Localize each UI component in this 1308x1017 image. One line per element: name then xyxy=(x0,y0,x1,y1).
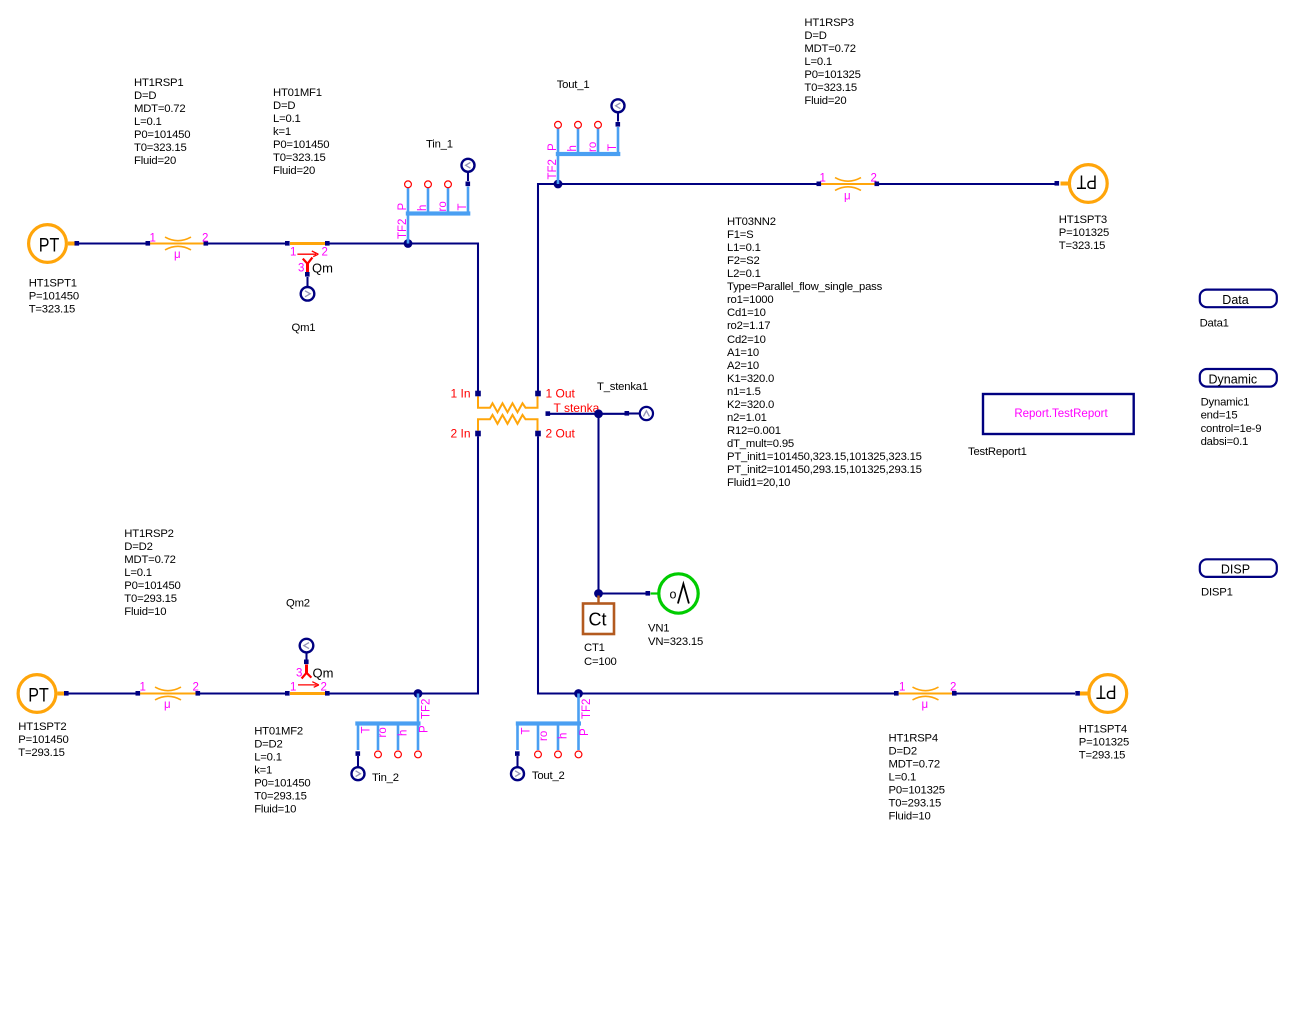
svg-text:L=0.1: L=0.1 xyxy=(134,116,162,128)
svg-text:ro: ro xyxy=(538,731,550,741)
source PT HT1SPT2 xyxy=(18,675,69,713)
svg-text:P: P xyxy=(579,728,591,736)
svg-text:1: 1 xyxy=(899,682,905,694)
temperature sensor Tin_2 TF2 (flipped) xyxy=(352,694,433,781)
svg-text:P0=101450: P0=101450 xyxy=(273,139,329,151)
svg-text:L1=0.1: L1=0.1 xyxy=(727,242,761,254)
svg-text:P: P xyxy=(547,143,559,151)
wall temperature port T stenka xyxy=(546,401,628,416)
wire xyxy=(206,242,288,244)
label HT1SPT1 params xyxy=(29,278,79,316)
svg-text:Fluid1=20,10: Fluid1=20,10 xyxy=(727,477,790,489)
svg-text:HT1SPT4: HT1SPT4 xyxy=(1079,723,1127,735)
svg-text:Fluid=10: Fluid=10 xyxy=(124,606,166,618)
svg-text:dabsi=0.1: dabsi=0.1 xyxy=(1201,436,1249,448)
svg-text:k=1: k=1 xyxy=(254,765,272,777)
svg-text:HT1RSP1: HT1RSP1 xyxy=(134,77,183,89)
svg-text:VN1: VN1 xyxy=(648,623,669,635)
svg-text:P0=101450: P0=101450 xyxy=(124,580,180,592)
svg-text:P: P xyxy=(419,725,431,733)
svg-text:MDT=0.72: MDT=0.72 xyxy=(124,554,175,566)
svg-text:Type=Parallel_flow_single_pass: Type=Parallel_flow_single_pass xyxy=(727,281,883,293)
svg-text:VN=323.15: VN=323.15 xyxy=(648,636,703,648)
label HT1SPT3 params xyxy=(1059,214,1109,252)
wire with corner down to heat exchanger port 1 In xyxy=(328,244,479,392)
svg-text:PT: PT xyxy=(1076,171,1097,193)
flow meter Qm HT01MF1 xyxy=(285,241,333,301)
wire with corner up to heat exchanger port 2 In xyxy=(328,436,479,693)
svg-text:TF2: TF2 xyxy=(547,159,559,179)
svg-text:PT_init1=101450,323.15,101325,: PT_init1=101450,323.15,101325,323.15 xyxy=(727,451,922,463)
label HT01MF2 params xyxy=(254,726,310,816)
svg-text:TestReport1: TestReport1 xyxy=(968,446,1027,458)
wire down from T_stenka junction xyxy=(597,414,599,594)
svg-text:T0=323.15: T0=323.15 xyxy=(134,142,187,154)
report block Report.TestReport xyxy=(983,394,1134,434)
svg-text:ro: ro xyxy=(587,142,599,152)
gauge T_stenka1 xyxy=(625,407,654,420)
svg-text:μ: μ xyxy=(844,191,851,203)
button DISP1 xyxy=(1200,559,1277,577)
svg-text:MDT=0.72: MDT=0.72 xyxy=(889,758,940,770)
scope VN1 xyxy=(646,574,699,613)
svg-text:Cd2=10: Cd2=10 xyxy=(727,334,766,346)
button Data1 xyxy=(1200,290,1277,308)
svg-text:L=0.1: L=0.1 xyxy=(254,752,282,764)
svg-text:T: T xyxy=(457,203,469,210)
svg-text:T0=323.15: T0=323.15 xyxy=(804,82,857,94)
svg-text:K2=320.0: K2=320.0 xyxy=(727,399,774,411)
svg-text:2: 2 xyxy=(322,247,328,259)
local resistance mu HT1RSP2 xyxy=(136,682,201,712)
svg-text:1: 1 xyxy=(290,682,296,694)
svg-text:T0=293.15: T0=293.15 xyxy=(254,791,307,803)
svg-text:TF2: TF2 xyxy=(397,219,409,239)
svg-text:T0=293.15: T0=293.15 xyxy=(124,593,177,605)
svg-text:o: o xyxy=(670,588,677,602)
svg-text:CT1: CT1 xyxy=(584,642,605,654)
svg-text:D=D2: D=D2 xyxy=(889,745,917,757)
svg-text:ro2=1.17: ro2=1.17 xyxy=(727,320,770,332)
wire xyxy=(77,242,148,244)
svg-text:Qm1: Qm1 xyxy=(292,322,316,334)
svg-text:Data1: Data1 xyxy=(1200,317,1229,329)
svg-text:D=D2: D=D2 xyxy=(124,541,152,553)
svg-text:μ: μ xyxy=(922,699,929,711)
svg-text:T=323.15: T=323.15 xyxy=(29,304,75,316)
node junction VN1/CT1 xyxy=(594,589,603,598)
flow meter Qm HT01MF2 (flipped) xyxy=(285,639,333,696)
svg-text:Report.TestReport: Report.TestReport xyxy=(1014,408,1108,420)
svg-text:2: 2 xyxy=(871,173,877,185)
svg-text:HT01MF1: HT01MF1 xyxy=(273,87,322,99)
svg-text:Fluid=10: Fluid=10 xyxy=(254,804,296,816)
svg-text:k=1: k=1 xyxy=(273,126,291,138)
svg-text:2 Out: 2 Out xyxy=(546,427,576,441)
temperature sensor Tout_1 TF2 xyxy=(547,99,624,184)
svg-text:control=1e-9: control=1e-9 xyxy=(1201,423,1262,435)
svg-text:dT_mult=0.95: dT_mult=0.95 xyxy=(727,438,794,450)
svg-text:Tout_2: Tout_2 xyxy=(532,770,565,782)
svg-text:1 In: 1 In xyxy=(450,387,470,401)
label HT1RSP1 params xyxy=(134,77,190,167)
svg-text:h: h xyxy=(558,733,570,739)
svg-text:1: 1 xyxy=(150,233,156,245)
svg-text:HT01MF2: HT01MF2 xyxy=(254,726,303,738)
svg-text:HT1RSP2: HT1RSP2 xyxy=(124,528,173,540)
svg-text:ro1=1000: ro1=1000 xyxy=(727,294,773,306)
temperature sensor Tout_2 TF2 (flipped) xyxy=(511,694,593,781)
label HT1SPT4 params xyxy=(1079,723,1129,761)
svg-text:T: T xyxy=(521,727,533,734)
svg-text:1: 1 xyxy=(140,682,146,694)
node junction Tin_1 tap xyxy=(404,239,413,248)
svg-text:Tin_2: Tin_2 xyxy=(372,772,399,784)
label VN1 params xyxy=(648,623,703,649)
svg-text:L=0.1: L=0.1 xyxy=(804,56,832,68)
node junction Tout_1 tap xyxy=(554,180,563,189)
wire xyxy=(198,692,288,694)
svg-text:TF2: TF2 xyxy=(581,699,593,719)
source PT HT1SPT3 (rotated 180) xyxy=(1055,165,1108,203)
svg-text:h: h xyxy=(567,145,579,151)
svg-text:T: T xyxy=(361,726,373,733)
svg-text:Fluid=20: Fluid=20 xyxy=(134,155,176,167)
local resistance mu HT1RSP3 xyxy=(817,173,880,203)
svg-text:F1=S: F1=S xyxy=(727,229,754,241)
local resistance mu HT1RSP1 xyxy=(146,233,209,262)
svg-text:D=D: D=D xyxy=(134,90,156,102)
wire xyxy=(67,692,139,694)
svg-text:D=D: D=D xyxy=(273,100,295,112)
svg-text:MDT=0.72: MDT=0.72 xyxy=(804,43,855,55)
svg-text:ro: ro xyxy=(377,727,389,737)
svg-text:Fluid=20: Fluid=20 xyxy=(273,165,315,177)
svg-text:Data: Data xyxy=(1222,293,1248,307)
svg-text:P0=101450: P0=101450 xyxy=(134,129,190,141)
svg-text:n1=1.5: n1=1.5 xyxy=(727,386,761,398)
svg-text:Tin_1: Tin_1 xyxy=(426,139,453,151)
svg-text:P: P xyxy=(397,203,409,211)
svg-text:HT1SPT3: HT1SPT3 xyxy=(1059,214,1107,226)
svg-text:3: 3 xyxy=(298,263,304,275)
label HT01MF1 params xyxy=(273,87,329,177)
svg-text:1: 1 xyxy=(290,247,296,259)
button Dynamic1 xyxy=(1200,369,1277,387)
svg-text:DISP: DISP xyxy=(1221,562,1250,576)
svg-text:Ct: Ct xyxy=(589,610,607,630)
label HT1RSP2 params xyxy=(124,528,180,618)
svg-text:ro: ro xyxy=(437,201,449,211)
svg-text:3: 3 xyxy=(296,668,302,680)
svg-text:F2=S2: F2=S2 xyxy=(727,255,760,267)
svg-text:L=0.1: L=0.1 xyxy=(889,771,917,783)
wire to VN1 xyxy=(599,592,649,594)
svg-text:T0=293.15: T0=293.15 xyxy=(889,797,942,809)
svg-text:Dynamic: Dynamic xyxy=(1208,372,1257,386)
svg-text:2: 2 xyxy=(950,682,956,694)
svg-text:P0=101325: P0=101325 xyxy=(804,69,860,81)
svg-text:HT1SPT2: HT1SPT2 xyxy=(18,721,66,733)
svg-text:T=293.15: T=293.15 xyxy=(1079,749,1125,761)
svg-text:D=D2: D=D2 xyxy=(254,739,282,751)
svg-text:Qm: Qm xyxy=(312,261,333,276)
svg-text:HT1RSP4: HT1RSP4 xyxy=(889,732,938,744)
svg-text:μ: μ xyxy=(174,249,181,261)
svg-text:HT03NN2: HT03NN2 xyxy=(727,216,776,228)
svg-text:L=0.1: L=0.1 xyxy=(124,567,152,579)
svg-text:MDT=0.72: MDT=0.72 xyxy=(134,103,185,115)
source PT HT1SPT1 xyxy=(29,225,80,263)
svg-text:PT_init2=101450,293.15,101325,: PT_init2=101450,293.15,101325,293.15 xyxy=(727,464,922,476)
svg-text:T stenka: T stenka xyxy=(554,401,600,415)
svg-text:A2=10: A2=10 xyxy=(727,360,759,372)
node junction Tin_2 tap xyxy=(414,689,423,698)
thermal capacity CT1 xyxy=(583,596,614,635)
label Dynamic1 params xyxy=(1201,397,1262,449)
svg-text:μ: μ xyxy=(164,699,171,711)
label HT1RSP4 params xyxy=(889,732,945,822)
svg-text:Cd1=10: Cd1=10 xyxy=(727,307,766,319)
svg-text:PT: PT xyxy=(28,685,49,707)
svg-text:L2=0.1: L2=0.1 xyxy=(727,268,761,280)
svg-text:TF2: TF2 xyxy=(420,699,432,719)
svg-text:P=101325: P=101325 xyxy=(1059,227,1109,239)
label HT03NN2 params xyxy=(727,216,922,489)
label CT1 params xyxy=(584,642,617,668)
svg-text:P=101450: P=101450 xyxy=(18,734,68,746)
svg-text:Qm2: Qm2 xyxy=(286,598,310,610)
svg-text:R12=0.001: R12=0.001 xyxy=(727,425,781,437)
svg-text:T: T xyxy=(607,144,619,151)
svg-text:Dynamic1: Dynamic1 xyxy=(1201,397,1250,409)
source PT HT1SPT4 (rotated 180) xyxy=(1075,675,1126,713)
svg-text:P0=101450: P0=101450 xyxy=(254,778,310,790)
svg-text:PT: PT xyxy=(1096,681,1117,703)
temperature sensor Tin_1 TF2 xyxy=(397,159,474,244)
heat exchanger HT03NN2 xyxy=(450,387,575,441)
svg-text:D=D: D=D xyxy=(804,30,826,42)
svg-text:C=100: C=100 xyxy=(584,656,617,668)
svg-text:T=323.15: T=323.15 xyxy=(1059,240,1105,252)
svg-text:HT1SPT1: HT1SPT1 xyxy=(29,278,77,290)
svg-text:h: h xyxy=(398,730,410,736)
svg-text:Fluid=10: Fluid=10 xyxy=(889,810,931,822)
svg-text:n2=1.01: n2=1.01 xyxy=(727,412,767,424)
svg-text:Qm: Qm xyxy=(313,666,334,681)
svg-text:2: 2 xyxy=(193,682,199,694)
svg-text:1 Out: 1 Out xyxy=(546,387,576,401)
svg-text:T=293.15: T=293.15 xyxy=(18,747,64,759)
svg-text:P=101325: P=101325 xyxy=(1079,736,1129,748)
svg-text:DISP1: DISP1 xyxy=(1201,587,1233,599)
svg-text:end=15: end=15 xyxy=(1201,410,1238,422)
svg-text:h: h xyxy=(417,205,429,211)
svg-text:PT: PT xyxy=(39,235,60,257)
svg-text:P=101450: P=101450 xyxy=(29,291,79,303)
label HT1SPT2 params xyxy=(18,721,68,759)
svg-text:T_stenka1: T_stenka1 xyxy=(597,381,648,393)
local resistance mu HT1RSP4 xyxy=(894,682,957,712)
svg-text:Fluid=20: Fluid=20 xyxy=(804,95,846,107)
node junction Tout_2 tap xyxy=(574,689,583,698)
wire from 2 Out down and right xyxy=(538,436,897,693)
wire xyxy=(955,692,1076,694)
svg-text:2 In: 2 In xyxy=(450,427,470,441)
svg-text:T0=323.15: T0=323.15 xyxy=(273,152,326,164)
svg-text:2: 2 xyxy=(321,682,327,694)
svg-text:L=0.1: L=0.1 xyxy=(273,113,301,125)
label HT1RSP3 params xyxy=(804,17,860,107)
svg-text:1: 1 xyxy=(820,173,826,185)
svg-text:A1=10: A1=10 xyxy=(727,347,759,359)
svg-text:HT1RSP3: HT1RSP3 xyxy=(804,17,853,29)
svg-text:Tout_1: Tout_1 xyxy=(557,79,590,91)
svg-text:K1=320.0: K1=320.0 xyxy=(727,373,774,385)
svg-text:P0=101325: P0=101325 xyxy=(889,784,945,796)
node junction T_stenka xyxy=(594,409,603,418)
wire from 1 Out up and right xyxy=(538,184,1055,391)
